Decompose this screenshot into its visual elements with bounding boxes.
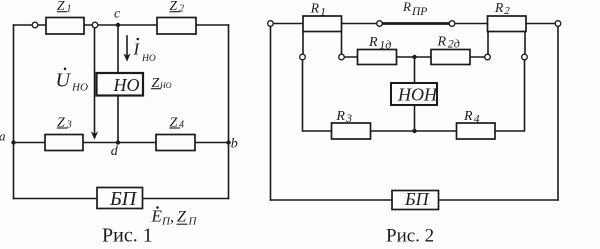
- svg-text:БП: БП: [404, 189, 430, 209]
- svg-text:2: 2: [504, 5, 510, 17]
- resistor R4: [457, 123, 496, 139]
- wire: drop from R2 right corner: [524, 32, 526, 55]
- svg-text:Рис. 1: Рис. 1: [102, 225, 153, 247]
- svg-text:R: R: [402, 0, 411, 14]
- svg-text:БП: БП: [109, 188, 138, 210]
- resistor R2: [488, 16, 527, 32]
- node c junction dot: [116, 23, 120, 27]
- resistor R3: [332, 123, 371, 139]
- label Z4: [169, 116, 184, 131]
- voltage arrow U_НО (c to d): [94, 28, 96, 134]
- terminal circle R_ПР left: [377, 21, 383, 27]
- label I_НО with dot: [133, 38, 156, 64]
- label R2: [494, 0, 510, 17]
- current arrow I_НО: [126, 36, 128, 57]
- op box НО (null indicator) U1: [97, 73, 144, 96]
- wire: fig2 right inner vertical down to R4: [495, 60, 525, 131]
- wire: fig2 left inner vertical down to R3: [303, 60, 332, 131]
- svg-text:1д: 1д: [379, 37, 391, 51]
- svg-text:a: a: [0, 129, 6, 144]
- label Z2: [170, 0, 185, 15]
- label E_П, Z_П: [151, 206, 198, 227]
- wire: fig2 right outer vertical: [557, 24, 559, 201]
- wire: fig2 left outer vertical: [270, 24, 272, 201]
- resistor R1д: [358, 50, 397, 65]
- terminal circle below R2 left: [485, 54, 491, 60]
- terminal circle right of Z1: [92, 22, 98, 28]
- op box НОН (null indicator) fig2: [391, 83, 437, 105]
- svg-text:U: U: [56, 70, 72, 92]
- wire: drop from R2 left corner: [487, 32, 489, 55]
- wire: fig2 middle row (R1д - R2д): [344, 56, 485, 58]
- svg-text:1: 1: [320, 4, 326, 18]
- wire: fig2 bottom bridge row R3-R4: [371, 130, 457, 132]
- terminal circle fig2 top-left: [268, 21, 274, 27]
- wire: fig1 left vertical a-branch: [13, 25, 15, 199]
- label R1: [310, 0, 326, 18]
- resistor R_ПР thick bar: [380, 22, 452, 25]
- resistor Z2: [157, 18, 196, 35]
- label R_ПР: [402, 0, 427, 18]
- svg-text:Рис. 2: Рис. 2: [386, 226, 434, 247]
- svg-text:R: R: [310, 0, 320, 15]
- svg-text:b: b: [231, 137, 238, 152]
- svg-text:4: 4: [474, 113, 480, 125]
- svg-text:3: 3: [66, 120, 72, 131]
- terminal circle below R1 left: [300, 54, 306, 60]
- svg-text:Z: Z: [57, 0, 65, 13]
- terminal circle R_ПР right: [449, 21, 455, 27]
- svg-text:4: 4: [179, 120, 184, 131]
- wire: drop from R1 right corner: [341, 32, 343, 55]
- svg-text:ПР: ПР: [411, 6, 427, 18]
- terminal circle below R1 right: [339, 54, 345, 60]
- svg-text:НО: НО: [141, 54, 156, 64]
- svg-text:НО: НО: [71, 82, 88, 94]
- svg-text:НОН: НОН: [397, 85, 438, 105]
- label U_НО with dot: [56, 68, 88, 94]
- svg-text:2: 2: [179, 4, 184, 15]
- svg-text:НО: НО: [113, 75, 140, 95]
- label R3: [335, 109, 352, 125]
- svg-text:2д: 2д: [448, 36, 460, 50]
- terminal circle left of Z1: [32, 22, 38, 28]
- resistor Z3: [45, 135, 83, 151]
- node a junction dot: [11, 140, 15, 144]
- label R4: [463, 109, 480, 126]
- node dot middle row fig2: [412, 55, 416, 59]
- wire: fig2 НОН branch vertical: [414, 57, 416, 131]
- svg-text:3: 3: [345, 113, 352, 125]
- svg-text:R: R: [335, 109, 345, 124]
- svg-text:R: R: [463, 109, 473, 124]
- svg-text:R: R: [437, 34, 447, 49]
- resistor R1: [303, 16, 342, 32]
- svg-text:1: 1: [67, 4, 72, 15]
- resistor Z1: [46, 18, 84, 35]
- label R2д: [437, 34, 460, 50]
- svg-text:d: d: [111, 144, 119, 159]
- svg-text:R: R: [494, 0, 504, 15]
- wire: fig2 top row: [271, 23, 559, 25]
- label Z_НО: [151, 76, 172, 91]
- svg-text:Z: Z: [170, 0, 178, 13]
- op box БП (power supply) fig2: [392, 191, 439, 210]
- wire: fig1 top row (a to c to b): [14, 24, 229, 26]
- svg-text:Z: Z: [177, 209, 187, 226]
- svg-text:П: П: [188, 216, 198, 228]
- terminal circle below R2 right: [522, 54, 528, 60]
- op box БП (power supply) fig1: [97, 188, 143, 209]
- wire: fig1 bottom bridge row a-d-b: [14, 142, 229, 144]
- resistor R2д: [431, 50, 470, 65]
- svg-text:R: R: [368, 35, 378, 50]
- label Z3: [57, 116, 72, 131]
- resistor Z4: [156, 135, 195, 151]
- svg-text:c: c: [114, 6, 121, 21]
- svg-text:,: ,: [170, 209, 174, 226]
- label Z1: [57, 0, 72, 15]
- wire: fig1 bottom supply wire: [14, 198, 229, 200]
- label R1д: [368, 35, 391, 51]
- node d junction dot: [116, 140, 120, 144]
- node dot bottom row fig2: [412, 129, 416, 133]
- terminal circle fig2 top-right: [555, 21, 561, 27]
- wire: drop from R1 left corner: [302, 32, 304, 55]
- svg-text:E: E: [151, 207, 163, 226]
- node b junction dot: [226, 140, 230, 144]
- wire: fig1 right vertical b-branch: [228, 25, 230, 199]
- wire: fig2 bottom supply wire: [271, 199, 559, 201]
- wire: fig1 middle branch c to d through НО: [117, 25, 119, 143]
